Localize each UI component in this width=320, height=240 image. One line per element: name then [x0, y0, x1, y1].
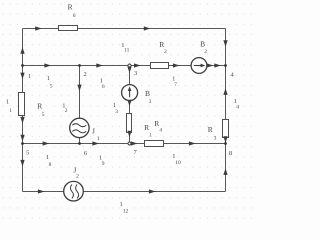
- arrow right after R2: [173, 63, 180, 67]
- arrow down into node5: [20, 135, 24, 142]
- J1 wavy symbol: [72, 124, 86, 127]
- wire top: [23, 28, 226, 30]
- arrow down between B3 and R1: [127, 100, 131, 107]
- B3 internal arrow: [128, 86, 132, 97]
- resistor R2: [151, 63, 169, 69]
- svg-text:12: 12: [123, 208, 129, 214]
- svg-text:R: R: [208, 125, 213, 134]
- svg-text:5: 5: [42, 112, 45, 118]
- svg-text:B: B: [145, 89, 150, 98]
- svg-text:1: 1: [120, 201, 123, 208]
- arrow down below R5: [20, 117, 24, 124]
- arrow right after node3: [134, 63, 141, 67]
- svg-text:8: 8: [49, 162, 52, 168]
- svg-text:1: 1: [47, 75, 50, 82]
- wire left: [22, 29, 24, 192]
- arrow down below node5: [20, 160, 24, 167]
- svg-text:1: 1: [46, 154, 49, 161]
- svg-text:2: 2: [65, 108, 68, 114]
- node 5 junction: [21, 142, 24, 145]
- arrow down I2 branch: [77, 85, 81, 92]
- arrow up right wire I4: [223, 88, 227, 95]
- arrow right after node7: [131, 141, 138, 145]
- svg-text:3: 3: [115, 109, 118, 115]
- svg-text:2: 2: [204, 49, 207, 55]
- source J2 circle: [64, 181, 84, 201]
- svg-text:1: 1: [9, 108, 12, 114]
- svg-text:J: J: [92, 127, 95, 136]
- arrow right I8: [43, 141, 50, 145]
- arrow right I5: [44, 63, 51, 67]
- wire middle-lower: [23, 143, 226, 145]
- arrow right after R4: [189, 141, 196, 145]
- svg-text:R: R: [37, 102, 42, 111]
- arrow down I3 branch above B3: [127, 66, 131, 73]
- wire branch J1: [79, 66, 81, 119]
- wire branch B3-R1: [129, 66, 131, 85]
- svg-text:3: 3: [134, 70, 137, 77]
- svg-text:3: 3: [149, 99, 152, 105]
- svg-text:6: 6: [73, 13, 76, 19]
- svg-text:2: 2: [164, 49, 167, 55]
- J2 wavy symbol: [70, 184, 73, 198]
- node 8 junction: [224, 142, 227, 145]
- svg-text:1: 1: [28, 73, 31, 80]
- node 6 junction: [78, 142, 81, 145]
- arrow down I1: [20, 73, 24, 80]
- resistor R1: [127, 114, 132, 133]
- node 1 junction: [21, 64, 24, 67]
- source J1 circle: [70, 118, 89, 137]
- svg-text:1: 1: [149, 133, 152, 139]
- arrow right top wire left: [35, 26, 42, 30]
- svg-text:9: 9: [102, 161, 105, 167]
- svg-text:R: R: [144, 123, 149, 132]
- svg-text:4: 4: [236, 105, 239, 111]
- source B3 circle: [122, 85, 138, 101]
- arrow right after B2 first: [207, 63, 214, 67]
- arrow up right wire bottom: [223, 168, 227, 175]
- node 7 terminal: [128, 142, 131, 145]
- svg-text:R: R: [159, 40, 164, 49]
- wire right: [225, 29, 227, 192]
- svg-text:R: R: [68, 3, 73, 12]
- wire bottom: [23, 191, 226, 193]
- svg-text:2: 2: [84, 71, 87, 78]
- arrow down between R1 and node7: [127, 131, 131, 138]
- resistor R6: [59, 26, 78, 31]
- arrow right bottom before J2: [38, 189, 45, 193]
- svg-text:6: 6: [102, 84, 105, 90]
- arrow right top wire mid: [144, 26, 151, 30]
- source B2 circle: [191, 58, 207, 74]
- B2 internal arrow: [194, 64, 205, 68]
- wire middle-upper: [23, 65, 226, 67]
- resistor R3: [223, 120, 229, 138]
- svg-text:4: 4: [159, 128, 162, 134]
- arrow right after B2 second: [214, 63, 221, 67]
- arrow down above node8: [223, 136, 227, 143]
- arrow up left wire: [20, 47, 24, 54]
- resistor R5: [19, 93, 25, 116]
- node 4 junction: [224, 64, 227, 67]
- node 3 terminal: [128, 64, 131, 67]
- svg-text:5: 5: [50, 84, 53, 90]
- arrow right I6: [96, 63, 103, 67]
- arrow right I9: [92, 141, 99, 145]
- svg-text:5: 5: [26, 150, 29, 157]
- node 2 junction: [78, 64, 81, 67]
- svg-text:2: 2: [76, 173, 79, 179]
- svg-text:3: 3: [214, 136, 217, 142]
- svg-text:8: 8: [229, 150, 232, 157]
- svg-text:1: 1: [172, 153, 175, 160]
- svg-text:1: 1: [97, 136, 100, 142]
- svg-text:1: 1: [6, 98, 9, 105]
- arrow down right wire top: [223, 40, 227, 47]
- svg-text:B: B: [200, 40, 205, 49]
- svg-text:11: 11: [124, 47, 130, 53]
- svg-text:7: 7: [174, 82, 177, 88]
- svg-text:10: 10: [175, 160, 181, 166]
- resistor R4: [145, 141, 164, 147]
- arrow right bottom I12: [149, 189, 156, 193]
